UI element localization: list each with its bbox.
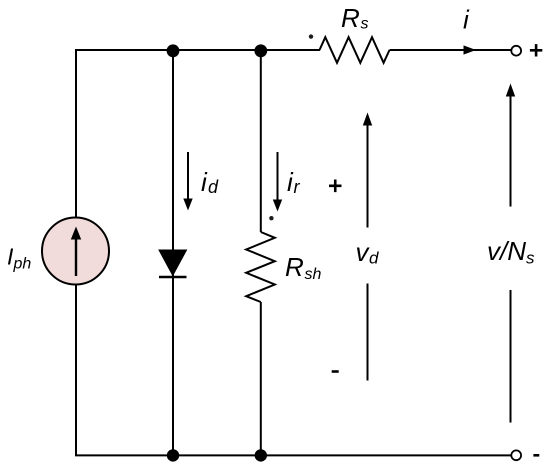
- plus sign (v_d polarity): [329, 180, 342, 193]
- output terminal + (open circle): [511, 46, 521, 56]
- output terminal - (open circle): [511, 450, 521, 460]
- node junction top-right: [254, 44, 267, 57]
- arrow v_d (lower segment): [367, 284, 369, 381]
- stray dot near R_sh: [269, 216, 273, 220]
- current arrow i (arrowhead on top wire): [464, 45, 477, 54]
- minus sign (output -): [533, 454, 539, 457]
- minus sign (v_d polarity): [332, 370, 339, 373]
- svg-text:v/N: v/N: [487, 236, 526, 266]
- resistor R_sh (zigzag): [246, 232, 275, 302]
- plus sign (output +): [530, 44, 542, 56]
- arrow v/N_s (upper segment with head): [510, 96, 512, 207]
- svg-text:R: R: [341, 3, 360, 33]
- stray dot near R_s: [309, 34, 313, 38]
- resistor R_s (zigzag): [320, 37, 390, 63]
- svg-text:sh: sh: [305, 266, 322, 283]
- arrow v/N_s (lower segment): [510, 290, 512, 423]
- wire shunt branch (top part): [260, 50, 262, 232]
- node junction bottom-left: [167, 449, 179, 461]
- svg-text:d: d: [208, 177, 219, 197]
- node junction bottom-right: [255, 449, 267, 461]
- current source I_ph (circle): [42, 218, 109, 285]
- svg-text:i: i: [201, 167, 208, 197]
- arrow i_d: [187, 152, 189, 199]
- wire top horizontal (left section): [76, 49, 320, 51]
- diode D (cathode bar): [159, 276, 187, 279]
- wire diode branch vertical: [172, 50, 174, 455]
- wire bottom horizontal: [75, 454, 511, 456]
- wire shunt branch (bottom part): [260, 302, 262, 455]
- svg-text:d: d: [369, 249, 379, 268]
- arrow i_r: [277, 152, 279, 200]
- svg-text:i: i: [463, 5, 470, 35]
- svg-text:ph: ph: [13, 256, 32, 273]
- node junction top-left: [167, 44, 180, 57]
- diode D (triangle): [159, 250, 187, 276]
- arrow v_d (upper segment with head): [367, 125, 369, 228]
- svg-text:R: R: [285, 252, 304, 282]
- current source I_ph (arrow): [75, 238, 77, 276]
- svg-text:r: r: [294, 177, 301, 197]
- wire top horizontal (right section with output lead): [390, 49, 512, 51]
- wire left vertical (bottom part): [75, 284, 77, 455]
- svg-text:s: s: [361, 16, 369, 33]
- wire left vertical (top part): [75, 49, 77, 218]
- svg-text:s: s: [526, 249, 535, 268]
